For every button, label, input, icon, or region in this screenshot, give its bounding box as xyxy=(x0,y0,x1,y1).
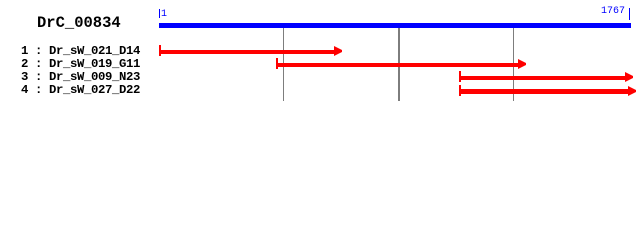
ruler start label 1 xyxy=(161,9,167,20)
clone arrow 1 shaft xyxy=(159,50,334,55)
clone arrow 4 head xyxy=(628,86,636,96)
gridline 3 xyxy=(513,28,514,101)
clone arrow 2 head xyxy=(518,59,526,69)
ruler end label 1767 xyxy=(601,6,625,17)
row label 1 : Dr_sW_021_D14 xyxy=(21,44,140,58)
clone arrow 2 tail tick xyxy=(276,58,278,69)
ruler end tick xyxy=(629,8,631,20)
row label 4 : Dr_sW_027_D22 xyxy=(21,83,140,97)
clone arrow 3 shaft xyxy=(459,76,625,81)
clone arrow 1 head xyxy=(334,46,342,56)
clone arrow 4 tail tick xyxy=(459,85,461,96)
clone arrow 4 shaft xyxy=(459,89,628,94)
gridline 2 xyxy=(398,28,399,101)
clone arrow 2 shaft xyxy=(276,63,518,68)
clone arrow 1 tail tick xyxy=(159,45,161,56)
row label 2 : Dr_sW_019_G11 xyxy=(21,57,140,71)
ruler start tick xyxy=(159,9,160,18)
title DrC_00834 xyxy=(37,14,121,32)
clone arrow 3 head xyxy=(625,72,633,82)
gridline 1 xyxy=(283,28,284,101)
row label 3 : Dr_sW_009_N23 xyxy=(21,70,140,84)
clone arrow 3 tail tick xyxy=(459,71,461,82)
ruler bar xyxy=(159,23,631,28)
